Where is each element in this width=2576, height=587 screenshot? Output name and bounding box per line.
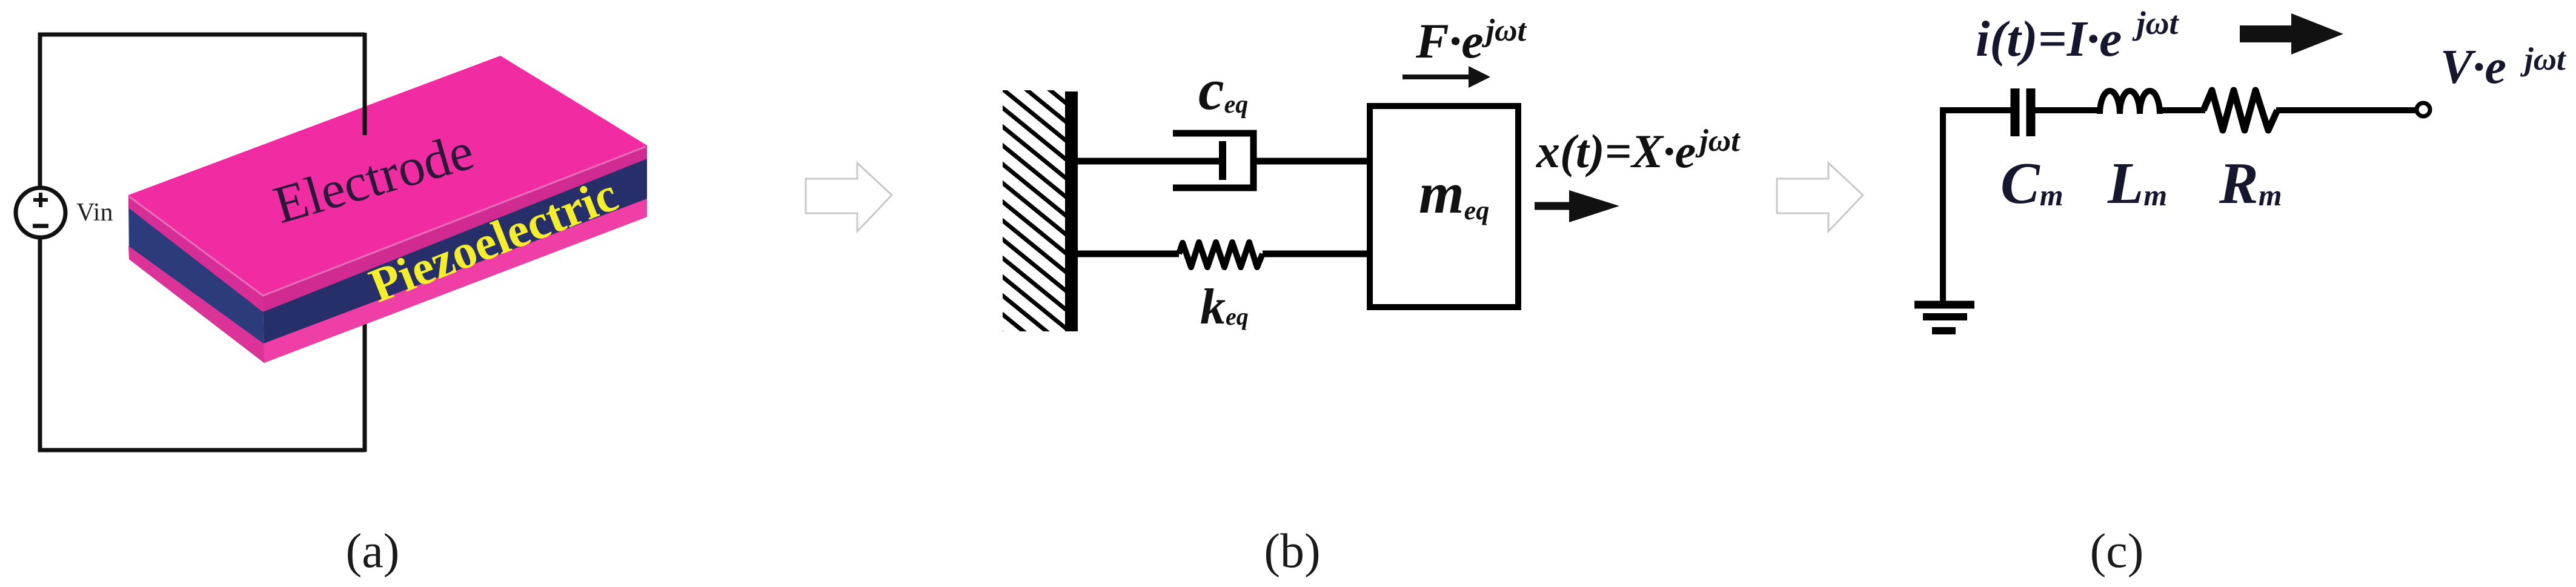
capacitor C_m plate 2 [2027,88,2036,136]
output terminal node [2417,103,2430,116]
capacitor C_m plate 1 [2011,88,2020,136]
piezoelectric slab: left end face navy [128,195,264,363]
damper rod from wall [1078,158,1223,165]
voltage source Vin circle [16,188,65,237]
svg-text:(c): (c) [2090,525,2144,578]
svg-text:Cm: Cm [2000,151,2063,216]
damper rod to mass [1253,158,1370,165]
spring rod to mass [1263,251,1370,257]
ground symbol [1914,305,1974,331]
svg-text:i(t)=I·ejωt: i(t)=I·ejωt [1976,5,2180,67]
svg-text:(a): (a) [346,525,400,578]
current direction arrow [2240,25,2296,42]
displacement arrow x [1535,202,1573,210]
wall hatching [997,28,1071,389]
slab: top face electrode [128,56,647,294]
wire: right vertical lower segment under slab [363,321,367,452]
wire: top horizontal of input loop [38,33,365,37]
svg-text:Lm: Lm [2107,151,2167,216]
inductor L_m coils [2100,91,2160,114]
wire inductor to resistor [2157,107,2205,113]
svg-text:x(t)=X·ejωt: x(t)=X·ejωt [1536,124,1741,177]
slab: edge highlight line [130,147,646,296]
wire: left vertical upper segment [38,33,42,189]
slab: left end face top pink layer [128,195,263,312]
wire: right vertical upper segment overlapping slab [363,33,367,135]
slab: left end face bottom pink layer [128,246,264,363]
voltage source plus sign [33,193,48,207]
wire: vertical + top horizontal to capacitor [1943,110,2015,303]
svg-text:Vin: Vin [76,199,113,227]
block arrow between (a) and (b) [806,163,892,231]
slab: front face top pink strip [263,145,647,312]
damper cylinder c_eq [1173,133,1253,188]
svg-text:ceq: ceq [1198,57,1248,122]
voltage source minus sign [33,224,48,228]
wall vertical bar [1065,91,1078,331]
spring rod from wall [1078,251,1179,257]
svg-text:F·ejωt: F·ejωt [1415,13,1527,68]
wire capacitor to inductor [2034,107,2102,113]
force arrow F [1403,75,1471,79]
slab: front face bottom pink strip [264,199,647,363]
svg-text:Rm: Rm [2219,151,2282,216]
spring k_eq zigzag [1179,242,1263,267]
slab: front face navy piezo layer [263,145,647,363]
resistor R_m zigzag [2203,90,2277,130]
mass block m_eq [1370,106,1518,307]
wire: bottom horizontal of input loop [38,448,365,453]
block arrow between (b) and (c) [1777,163,1863,231]
svg-text:V·ejωt: V·ejωt [2440,41,2567,94]
svg-text:keq: keq [1200,279,1249,335]
damper piston [1219,141,1226,180]
wire: left vertical lower segment [38,237,42,452]
svg-text:(b): (b) [1264,525,1320,578]
wire resistor to terminal [2276,107,2417,113]
